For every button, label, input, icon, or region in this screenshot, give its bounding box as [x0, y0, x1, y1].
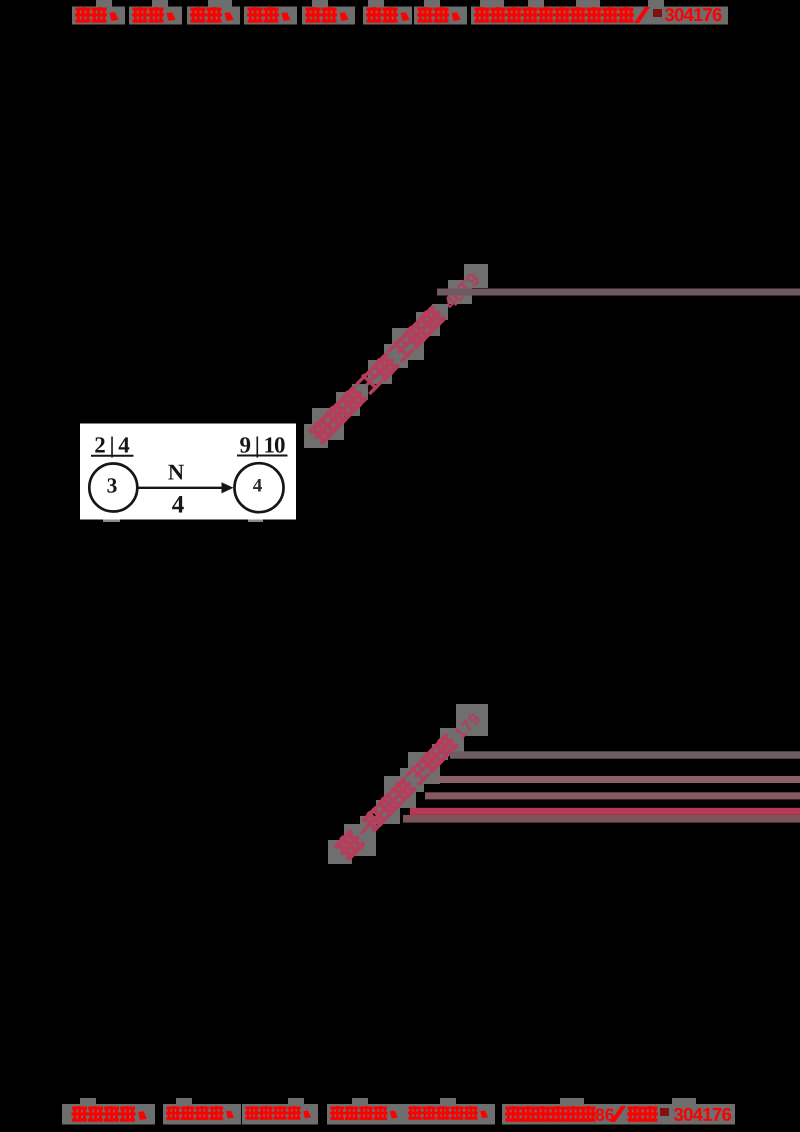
watermark 2 ghost stripe 1: [450, 751, 800, 758]
underline under 9|10: [237, 455, 288, 457]
watermark 2 ghost stripe 5: [403, 815, 800, 823]
svg-text:4: 4: [253, 475, 263, 496]
node 4 circle: [235, 463, 284, 512]
watermark 2 ghost stripe 4 bright: [410, 808, 800, 815]
svg-text:N: N: [168, 459, 184, 484]
svg-text:4: 4: [172, 491, 185, 518]
underline under 2|4: [91, 455, 134, 457]
arrowhead at node 4: [222, 482, 234, 493]
gray highlight bands behind footer groups: [62, 1098, 735, 1125]
top header group 1: [75, 7, 119, 23]
dark comma before footer digits: [660, 1108, 669, 1116]
svg-text:3: 3: [107, 473, 118, 497]
top header group 2: [132, 7, 176, 23]
footer group 1: [72, 1106, 148, 1122]
gray smudge under box right: [248, 520, 263, 523]
activity duration label 4: [172, 491, 185, 518]
top header group 4: [247, 7, 291, 23]
watermark 2 gray staircase blocks: [328, 704, 488, 864]
top header group 6: [366, 7, 410, 23]
footer group 5: [408, 1106, 488, 1120]
footer group 3: [245, 1106, 311, 1120]
white background box: [80, 424, 296, 520]
footer group 4: [330, 1106, 398, 1120]
top header group 3: [190, 7, 234, 23]
top header group 5: [305, 7, 349, 23]
svg-text:304176: 304176: [673, 1104, 731, 1125]
top header group 7: [417, 7, 461, 23]
watermark 2 ghost stripe 3: [425, 792, 800, 799]
footer group 2: [166, 1106, 234, 1120]
watermark 2 ghost stripe 2: [437, 776, 800, 783]
svg-text:9 | 10: 9 | 10: [239, 432, 285, 457]
node 4 label: [253, 475, 263, 496]
watermark 1 gray staircase blocks: [304, 264, 488, 448]
dark comma before top digits: [653, 9, 662, 17]
svg-text:304176: 304176: [664, 4, 721, 25]
footer tail phrase: [505, 1105, 658, 1125]
watermark 1 ghost stripe to right edge: [437, 289, 800, 296]
footer digits 304176: [673, 1104, 731, 1125]
node 3 label: [107, 473, 118, 497]
watermark 1 rotated pseudo text: [307, 267, 483, 446]
gray smudge under box left: [103, 520, 120, 523]
watermark 2 rotated pseudo text: [333, 706, 485, 862]
node 4 time labels 9|10: [239, 432, 285, 457]
gray highlight bands behind top header groups: [72, 0, 728, 25]
arrow wire from node 3 to node 4: [139, 487, 225, 489]
activity name label N: [168, 459, 184, 484]
node 3 time labels 2|4: [94, 432, 130, 457]
node 3 circle: [89, 464, 137, 512]
svg-text:2 | 4: 2 | 4: [94, 432, 130, 457]
top header digits 304176: [664, 4, 721, 25]
top header tail phrase: [474, 7, 650, 23]
